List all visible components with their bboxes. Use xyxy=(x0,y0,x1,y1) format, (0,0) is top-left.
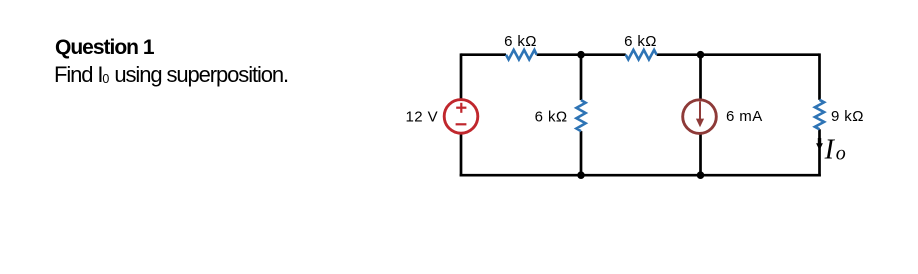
wire: middle branch above R3 xyxy=(580,55,583,100)
wire: top rail between R2 and node B xyxy=(657,53,701,56)
label 6 kOhm middle xyxy=(535,109,568,126)
label Io xyxy=(824,134,846,165)
svg-text:12 V: 12 V xyxy=(406,108,438,125)
wire: right branch above R4 xyxy=(818,53,821,99)
resistor 6kOhm top-left xyxy=(506,50,537,60)
svg-text:6 kΩ: 6 kΩ xyxy=(624,33,657,50)
label 9 kOhm xyxy=(831,108,864,125)
svg-text:6 kΩ: 6 kΩ xyxy=(535,109,568,126)
node A top junction dot xyxy=(577,51,585,59)
label 6 kOhm top-middle xyxy=(624,33,657,50)
wire: left branch below voltage source xyxy=(460,134,463,177)
title text xyxy=(55,37,154,58)
svg-text:I: I xyxy=(824,134,836,165)
current source I1 6mA circle xyxy=(683,100,717,134)
svg-text:6 kΩ: 6 kΩ xyxy=(504,33,537,50)
wire: top rail between node A and R2 xyxy=(581,53,626,56)
node B top junction dot xyxy=(697,51,705,59)
wire: top rail left segment (corner to R1) xyxy=(461,53,506,56)
Io current arrow on right branch xyxy=(816,138,823,150)
svg-text:6 mA: 6 mA xyxy=(726,108,763,125)
prompt text xyxy=(54,64,288,86)
wire: branch above current source xyxy=(699,55,702,100)
resistor 6kOhm middle vertical xyxy=(576,100,585,131)
svg-text:o: o xyxy=(836,142,846,164)
node B bottom junction dot xyxy=(697,171,705,179)
wire: middle branch below R3 xyxy=(580,131,583,175)
label 12 V xyxy=(406,108,438,125)
voltage source V1 12V circle xyxy=(444,100,478,134)
wire: bottom rail xyxy=(460,174,821,177)
wire: top rail between R1 and node A xyxy=(537,53,581,56)
resistor 6kOhm top-middle xyxy=(626,50,657,60)
wire: right branch below R4 (through Io arrow) xyxy=(818,129,821,176)
label 6 mA xyxy=(726,108,763,125)
svg-text:9 kΩ: 9 kΩ xyxy=(831,108,864,125)
wire: top rail node B to top-right corner xyxy=(701,53,820,56)
label 6 kOhm top-left xyxy=(504,33,537,50)
resistor 9kOhm right vertical xyxy=(815,100,824,130)
wire: branch below current source xyxy=(699,135,702,176)
wire: left branch above voltage source xyxy=(460,53,463,99)
node A bottom junction dot xyxy=(577,171,585,179)
